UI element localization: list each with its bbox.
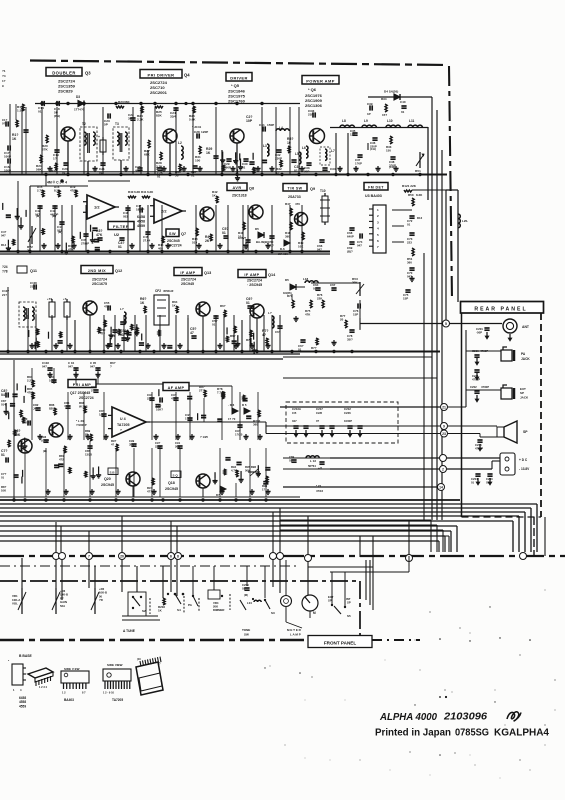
lamp [281,596,292,607]
inductor L6 [302,146,308,158]
svg-text:4700P: 4700P [481,385,489,389]
capacitor C27 [191,166,198,178]
svg-text:10K: 10K [1,488,6,492]
svg-text:L04: L04 [247,601,252,605]
text U3 type [365,194,382,198]
text dashed box labels [292,407,352,423]
switch S4 [174,593,193,614]
svg-text:053: 053 [123,215,128,219]
svg-text:Q11: Q11 [30,269,37,273]
svg-text:W 22?: W 22? [79,405,88,409]
svg-text:2SC2724: 2SC2724 [247,279,262,283]
svg-text:CF2: CF2 [155,289,161,293]
wire bus vert x437 [436,110,438,520]
resistor R70 [246,330,252,342]
wire drops front [22,558,345,606]
svg-text:01: 01 [471,480,475,484]
svg-text:100/4: 100/4 [49,379,57,383]
svg-text:2SC1306: 2SC1306 [305,103,323,108]
resistor R73 [287,294,294,308]
capacitor C40 [400,100,407,114]
resistor R45 [158,236,164,251]
svg-text:WA-090: WA-090 [278,252,288,256]
svg-text:472: 472 [59,457,64,461]
wire y566 dash [0,565,300,567]
switch S2 [128,592,146,616]
inductor L5 [295,152,301,164]
svg-text:1T74?0: 1T74?0 [74,108,85,112]
svg-text:POWER AMP: POWER AMP [306,78,335,83]
svg-text:10K: 10K [298,245,304,249]
wire pa verticals [336,127,428,200]
transistor Q18 [196,474,210,488]
capacitor C202 [470,385,489,393]
svg-text:5P: 5P [104,123,108,127]
ground g_r51 [409,276,414,282]
svg-text:2?: 2? [91,389,95,393]
inductor L8 [340,119,354,128]
svg-text:27K: 27K [42,148,48,152]
left col labels1 [1,230,7,247]
capacitor C58 [212,316,219,327]
cluster row3b small parts [108,322,144,345]
resistor R77 [340,314,347,328]
svg-text:21: 21 [442,406,446,410]
svg-text:?24: ?24 [2,265,8,269]
svg-text:L5: L5 [295,152,299,156]
svg-text:Q4: Q4 [184,73,190,78]
svg-text:10K?: 10K? [156,408,163,412]
svg-text:10: 10 [287,141,291,145]
text BA403 pkg [64,698,74,702]
package pkg0 left [8,659,26,692]
node 9 [441,423,448,430]
svg-text:82K: 82K [156,114,162,118]
resistor R32 [276,160,282,175]
capacitor C74 [357,233,363,247]
extra labels row2 [96,227,229,249]
resistor R18 [68,236,75,252]
svg-text:+: + [98,135,100,139]
text Q6 types [305,87,323,108]
svg-text:D5: D5 [285,278,289,282]
resistor R89 [85,429,92,441]
capacitor C65 [298,340,306,352]
cluster row3c small parts [226,327,256,353]
svg-text:?: ? [120,428,122,432]
svg-text:1 2 3 4: 1 2 3 4 [39,685,47,689]
inductor L2 [178,141,183,159]
block label FILTER U2 [108,222,134,238]
svg-text:M: M [313,611,316,615]
capacitor C81 [49,375,57,383]
main dash-dot bus y556 [0,555,565,557]
inductor L20 [458,214,468,228]
resistor R21 [36,155,42,172]
capacitor C56 [110,330,118,342]
transistor Q20 [126,472,140,486]
svg-text:2SC2724: 2SC2724 [181,278,196,282]
svg-text:L?: L? [120,307,124,311]
svg-text:36K: 36K [124,100,130,104]
wire node21 [280,390,501,407]
resistor R22 [51,163,57,177]
wire top bias y103 [35,103,300,105]
capacitor C42 [35,206,43,218]
svg-text:SP: SP [328,599,332,603]
diode D3 [76,95,84,107]
resistor R19 [70,185,78,197]
wire bus vert x424 [423,253,425,520]
ic U3 BA403 body [369,205,386,253]
wire row4 right links [266,357,437,426]
wire bus vert x442 [441,150,443,520]
wire rail3b y359 [0,358,283,360]
svg-text:5R*64: 5R*64 [308,464,316,468]
capacitor C17 [4,145,11,158]
capacitor C91 [175,441,183,448]
dense bits row2 mid [42,225,100,254]
resistor R88 [79,401,88,413]
svg-text:100: 100 [195,159,200,163]
svg-text:220P: 220P [147,397,154,401]
capacitor C49 [243,240,251,251]
svg-text:L 13: L 13 [310,459,316,463]
wire bus h2 [0,508,531,552]
svg-text:?1: ?1 [2,69,6,73]
resistor R84 [27,375,34,387]
resistor R203 [158,598,165,613]
left col labels2 [1,399,7,492]
switch row dashed links [150,594,246,614]
svg-text:?78: ?78 [2,269,8,273]
diode D9 [216,486,226,497]
svg-text:T/R SW: T/R SW [288,186,303,190]
svg-text:047: 047 [1,393,7,397]
node pair a [53,553,66,560]
svg-text:JACK: JACK [521,357,530,361]
coil L13 [306,456,319,458]
dashed box tone caps [286,402,398,443]
resistor R15 [37,185,44,197]
svg-text:TA7205: TA7205 [112,698,123,702]
caps row4 symbols [47,368,100,378]
dense bits row3 mid [98,324,172,348]
block label IF AMP Q14 [238,270,276,278]
svg-text:Q7: Q7 [181,232,186,236]
svg-text:U 4: U 4 [120,417,126,421]
package pkg2 sip [61,667,89,695]
pot RV3 [352,277,364,296]
capacitor C31 [259,123,274,132]
svg-text:13/25: 13/25 [85,452,92,456]
package pkg3 sip10 [103,663,131,695]
wire bus h1 [0,504,537,552]
text B BASE [19,654,33,658]
extra caps row3 [121,306,268,345]
svg-text:C67: C67 [330,283,336,287]
svg-text:D?: D? [216,493,220,497]
resistor R75 [305,300,312,317]
block label PRI DRIVER Q4 [140,70,190,79]
node pair d [168,553,182,560]
capacitor C29 [224,159,232,170]
wire row2 misc [392,210,412,242]
text TA7205 pkg [112,698,123,702]
text Q12 types [92,278,107,287]
svg-text:REAR PANEL: REAR PANEL [474,307,527,313]
svg-text:223: 223 [407,241,412,245]
svg-text:1?: 1? [2,79,6,83]
resistor R96b [111,439,118,451]
capacitor C201 [476,327,490,335]
rear panel bottom border [462,516,542,518]
svg-text:510: 510 [192,241,197,245]
svg-text:56: 56 [175,174,179,178]
capacitor C26 [156,167,163,179]
coil L18 [303,277,318,283]
capacitor C68 [347,228,355,239]
junction dots wire103 [40,102,263,105]
svg-text:01: 01 [246,301,250,305]
inductor L4 [276,126,289,131]
svg-text:01: 01 [191,174,195,178]
pot R2 [91,587,107,614]
capacitor C86 [99,409,107,417]
svg-text:1K: 1K [140,301,145,305]
svg-text:10P: 10P [246,119,253,123]
svg-text:27.04: 27.04 [143,239,151,243]
block label SB Q20 [108,468,118,475]
svg-text:8: 8 [177,555,179,559]
wire front verticals right [366,536,373,610]
svg-text:IF AMP: IF AMP [180,271,195,275]
svg-text:SIDE V EW: SIDE V EW [64,667,80,671]
svg-text:20: 20 [120,555,124,559]
capacitor C97 [318,462,325,470]
transistor Q13 [196,302,210,316]
capacitor C132 [308,109,315,118]
capacitor C47 [136,204,144,213]
svg-text:1/2: 1/2 [94,205,100,210]
text Q5 types [228,83,246,103]
text tone sw [242,628,250,637]
svg-text:01: 01 [1,453,5,457]
capacitor C204 [471,474,481,484]
svg-text:C2/8: C2/8 [316,411,322,415]
block label POWER AMP Q6 [302,76,339,85]
pot R95 [245,465,260,476]
svg-text:L11: L11 [409,119,415,123]
svg-text:S4: S4 [177,608,181,612]
capacitor C28 [194,130,208,139]
inductor L9 [362,119,376,128]
svg-text:20: 20 [340,318,344,322]
resistor R93 [147,478,154,493]
coil L04 [247,600,261,605]
wire dc feeds [330,458,500,469]
svg-text:7: 7 [88,555,90,559]
capacitor C36 [370,138,378,151]
transformer T10 [320,189,330,225]
wire row5 right [283,458,330,469]
resistor R27 [144,140,150,157]
svg-text:01: 01 [289,458,293,462]
svg-text:TA7205: TA7205 [117,423,130,427]
node dc1 [440,455,447,462]
capacitor C32 [275,150,282,161]
svg-text:01: 01 [298,348,302,352]
svg-text:6: 6 [170,555,172,559]
wire tune bracket [122,616,160,620]
svg-text:VOL: VOL [12,602,18,606]
svg-text:R14: R14 [1,243,7,247]
dense bits row5 [212,458,270,484]
svg-text:C39: C39 [367,102,373,106]
svg-text:01: 01 [313,287,317,291]
text misc row5 [200,435,208,439]
wire bus h8 [0,536,445,552]
capacitor C50 [268,236,275,248]
capacitor C39 [367,102,373,116]
svg-text:+ D C: + D C [519,458,528,462]
svg-text:2SC2001: 2SC2001 [150,90,168,95]
wire row3 right [292,283,360,330]
text U2 types [137,215,145,228]
block label Q11 [17,266,37,273]
svg-text:PRI DRIVER: PRI DRIVER [148,72,175,77]
svg-text:JACK: JACK [520,396,529,400]
svg-text:SW: SW [244,633,249,637]
dense bits row1 mid [220,147,269,181]
svg-text:Q18: Q18 [168,481,175,485]
dc jack box [500,453,530,475]
svg-text:21?: 21? [2,293,7,297]
wire bus vert x446 [445,190,447,320]
capacitor C18 [54,101,60,118]
capacitor C82 [33,403,41,411]
capacitor C24 [170,108,179,119]
svg-text:2SC945: 2SC945 [165,487,178,491]
svg-text:· D 6: · D 6 [228,403,235,407]
svg-text:455KHZ: 455KHZ [163,289,174,293]
svg-text:68K: 68K [144,153,150,157]
text delta tune [123,629,135,633]
svg-text:2K: 2K [205,239,210,243]
left col row1 extra [12,104,29,174]
svg-text:Q14: Q14 [268,273,276,277]
svg-text:L9: L9 [364,119,368,123]
capacitor C66 [317,240,325,252]
resistor R85 [27,387,34,399]
left col bits top [2,69,6,88]
package pkg1 dip3d [28,668,53,689]
svg-text:52A: 52A [60,604,65,608]
resistor R86 [49,403,56,415]
resistor R48 [285,222,292,239]
svg-text:FILTER: FILTER [113,224,129,229]
block label PRI AMP [68,380,96,388]
text Q13 types [181,278,196,287]
text Q7 types [167,239,182,247]
svg-text:D-6: D-6 [280,247,285,251]
svg-text:C34: C34 [330,167,336,171]
pot R-rf [52,588,68,614]
svg-text:047: 047 [68,365,73,369]
outer border top (dash-dot) [30,61,448,66]
svg-text:D4 1N(26): D4 1N(26) [384,90,398,94]
svg-text:Q13: Q13 [204,271,211,275]
coil L16 [268,311,274,328]
capacitor C80 [22,417,30,426]
svg-text:R40 6.2K R41 6.2K: R40 6.2K R41 6.2K [128,190,154,194]
text Q9 type [288,195,301,199]
diode D4 [384,90,400,101]
svg-text:47(M): 47(M) [70,189,78,193]
svg-text:220P: 220P [155,444,162,448]
svg-text:47/16: 47/16 [316,489,323,493]
capacitor C200 [486,474,493,484]
svg-text:D5: D5 [255,227,259,231]
svg-text:L10: L10 [387,119,393,123]
wire node14 [283,486,437,488]
svg-text:01: 01 [212,323,216,327]
capacitor C16 [4,158,11,172]
svg-text:(M): (M) [36,214,40,218]
resistor R25 [155,106,163,118]
text Q20 [101,477,114,487]
text BA-09 [256,240,268,244]
svg-text:KGALPHA4: KGALPHA4 [494,728,549,739]
capacitor C85 [85,446,93,456]
capacitor C10 left [2,118,8,127]
capacitor C48 [123,208,131,219]
capacitor C209 [242,583,250,597]
svg-text:(M): (M) [52,214,56,218]
svg-text:470: 470 [295,202,300,206]
resistor RV2 [27,226,36,253]
svg-text:D12: D12 [417,216,423,220]
wire step3 [280,530,443,552]
svg-text:L3: L3 [263,144,267,148]
wire right below rear [534,517,545,556]
svg-text:820?: 820? [49,407,56,411]
svg-text:9: 9 [443,425,445,429]
transistor Q6 [310,129,325,144]
svg-text:L7: L7 [331,149,335,153]
capacitor C70 [407,268,415,279]
transistor Q19 [18,439,32,453]
svg-text:01: 01 [294,169,298,173]
text Q4 types [150,80,168,95]
svg-text:014: 014 [1,402,6,406]
svg-text:+T2: +T2 [47,297,52,301]
capacitor C210 [472,349,488,357]
wire row2 left frame [30,174,130,252]
svg-text:01: 01 [157,175,161,179]
resistor R66 [220,304,226,317]
capacitor C90 [155,441,163,448]
capacitor C35 [350,129,358,137]
wire drops row2 [40,205,302,251]
svg-text:AF AMP: AF AMP [168,386,185,390]
capacitor C25 [135,165,143,173]
svg-text:L A M P: L A M P [290,633,301,637]
block label SW Q7 [166,229,186,237]
svg-text:FM DET: FM DET [368,185,384,189]
coil can CT3 [63,297,70,320]
resistor R92 [199,385,206,397]
